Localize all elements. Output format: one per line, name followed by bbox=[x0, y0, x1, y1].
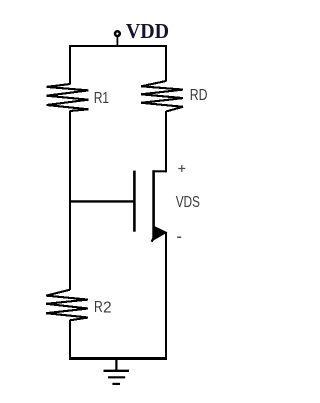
svg-text:VDD: VDD bbox=[126, 21, 169, 44]
ground bar 3 bbox=[112, 383, 120, 385]
svg-text:R: R bbox=[94, 299, 103, 317]
label + bbox=[178, 165, 185, 172]
wire right rail drain segment (RD to drain jog) bbox=[165, 111, 167, 172]
svg-text:R1: R1 bbox=[94, 89, 109, 107]
resistor RD bbox=[141, 81, 183, 112]
transistor Q1 channel bar bbox=[152, 170, 155, 239]
wire right rail upper (top wire to RD) bbox=[165, 45, 167, 82]
wire left rail lower (R2 to bottom wire) bbox=[69, 320, 71, 360]
transistor Q1 source arrow bbox=[154, 227, 166, 240]
ground bar 1 bbox=[104, 370, 130, 372]
wire drain jog bbox=[153, 170, 167, 172]
wire left rail upper (top wire to R1) bbox=[69, 45, 71, 85]
svg-text:VDS: VDS bbox=[176, 192, 200, 210]
wire bottom rail bbox=[69, 357, 167, 360]
svg-text:RD: RD bbox=[190, 86, 208, 104]
wire right rail lower (source to bottom wire) bbox=[165, 232, 167, 360]
wire left rail middle (R1 to R2) bbox=[69, 111, 71, 291]
wire VDD stem bbox=[116, 37, 118, 47]
svg-text:2: 2 bbox=[103, 299, 112, 316]
transistor Q1 source tail bbox=[152, 238, 154, 242]
resistor R1 bbox=[47, 84, 89, 111]
resistor R2 bbox=[46, 290, 88, 321]
ground stem bbox=[115, 359, 117, 371]
transistor Q1 gate bar bbox=[133, 171, 136, 232]
transistor Q1 gate lead bbox=[70, 200, 134, 202]
label - bbox=[177, 236, 181, 238]
node VDD terminal dot bbox=[115, 31, 120, 36]
wire top rail bbox=[69, 45, 167, 47]
ground bar 2 bbox=[108, 376, 125, 378]
